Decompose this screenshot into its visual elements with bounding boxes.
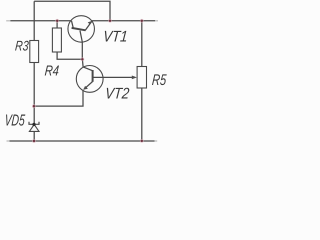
wire main rail left faint tip bbox=[6, 20, 10, 22]
wire main rail right faint tip bbox=[155, 20, 158, 22]
junction dot collector node bbox=[81, 57, 85, 61]
wire left vertical lower bbox=[33, 131, 35, 141]
wire bottom rail bbox=[10, 140, 155, 142]
wire main rail right bbox=[92, 20, 155, 22]
svg-text:R4: R4 bbox=[44, 63, 60, 79]
wire R4 top lead bbox=[56, 21, 58, 28]
transistor VT1 bbox=[68, 16, 95, 43]
wire VT1 collector bbox=[80, 31, 82, 60]
wire VT2 emitter lead bbox=[34, 90, 83, 106]
junction dot R5 bottom bbox=[140, 139, 144, 143]
diode junction blob bbox=[32, 123, 35, 126]
wire collector to VT2 bbox=[82, 59, 92, 70]
transistor VT2 bbox=[76, 66, 103, 93]
junction dot R5 top bbox=[140, 19, 144, 23]
wire main rail left bbox=[10, 20, 71, 22]
junction dot emitter node bbox=[32, 104, 36, 108]
transistor VT2 base bar bbox=[92, 70, 94, 82]
wire left vertical upper bbox=[33, 1, 35, 40]
svg-text:R5: R5 bbox=[151, 72, 167, 89]
wire left vertical mid bbox=[33, 63, 35, 125]
junction dot R4 top bbox=[55, 19, 59, 23]
wire bottom rail faint left tip bbox=[7, 140, 10, 142]
wire VT2 base to R5 bbox=[93, 76, 135, 78]
zener diode VD5 triangle bbox=[29, 125, 39, 132]
junction dot bypass right bbox=[108, 19, 112, 23]
wire bottom rail faint right tip bbox=[155, 140, 158, 142]
svg-text:VT2: VT2 bbox=[104, 85, 130, 102]
transistor VT2 emitter bbox=[84, 82, 93, 90]
svg-text:VD5: VD5 bbox=[4, 112, 26, 130]
transistor VT1 emitter arrow bbox=[88, 21, 92, 24]
wire R5 bottom lead bbox=[141, 88, 143, 141]
transistor VT2 emitter arrow bbox=[83, 86, 88, 90]
wire R4 bottom lead bbox=[57, 52, 82, 59]
junction dot diode bottom bbox=[32, 139, 36, 143]
zener diode VD5 cathode bar bbox=[29, 122, 39, 125]
wire R5 top lead bbox=[141, 21, 143, 67]
transistor VT1 base bar bbox=[72, 28, 86, 30]
svg-text:VT1: VT1 bbox=[102, 29, 128, 46]
resistor R4 bbox=[52, 28, 61, 52]
svg-text:R3: R3 bbox=[15, 38, 30, 54]
wire top bypass bbox=[34, 1, 110, 21]
resistor R5 bbox=[137, 67, 146, 89]
transistor VT1 base link bbox=[72, 21, 74, 28]
transistor VT1 emitter bbox=[85, 21, 92, 31]
resistor R3 bbox=[30, 41, 39, 63]
rheostat arrow head bbox=[132, 76, 137, 80]
